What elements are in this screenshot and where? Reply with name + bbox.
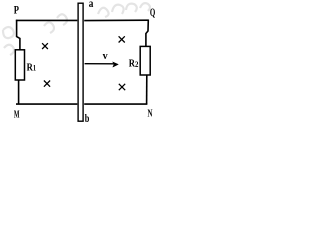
svg-text:v: v bbox=[103, 51, 108, 62]
svg-text:b: b bbox=[85, 111, 90, 125]
svg-text:Q: Q bbox=[150, 7, 155, 19]
svg-text:M: M bbox=[14, 108, 20, 120]
svg-text:P: P bbox=[14, 4, 19, 16]
svg-text:2: 2 bbox=[135, 60, 138, 69]
svg-text:N: N bbox=[148, 109, 153, 120]
svg-text:1: 1 bbox=[33, 64, 36, 73]
svg-text:a: a bbox=[89, 0, 94, 10]
